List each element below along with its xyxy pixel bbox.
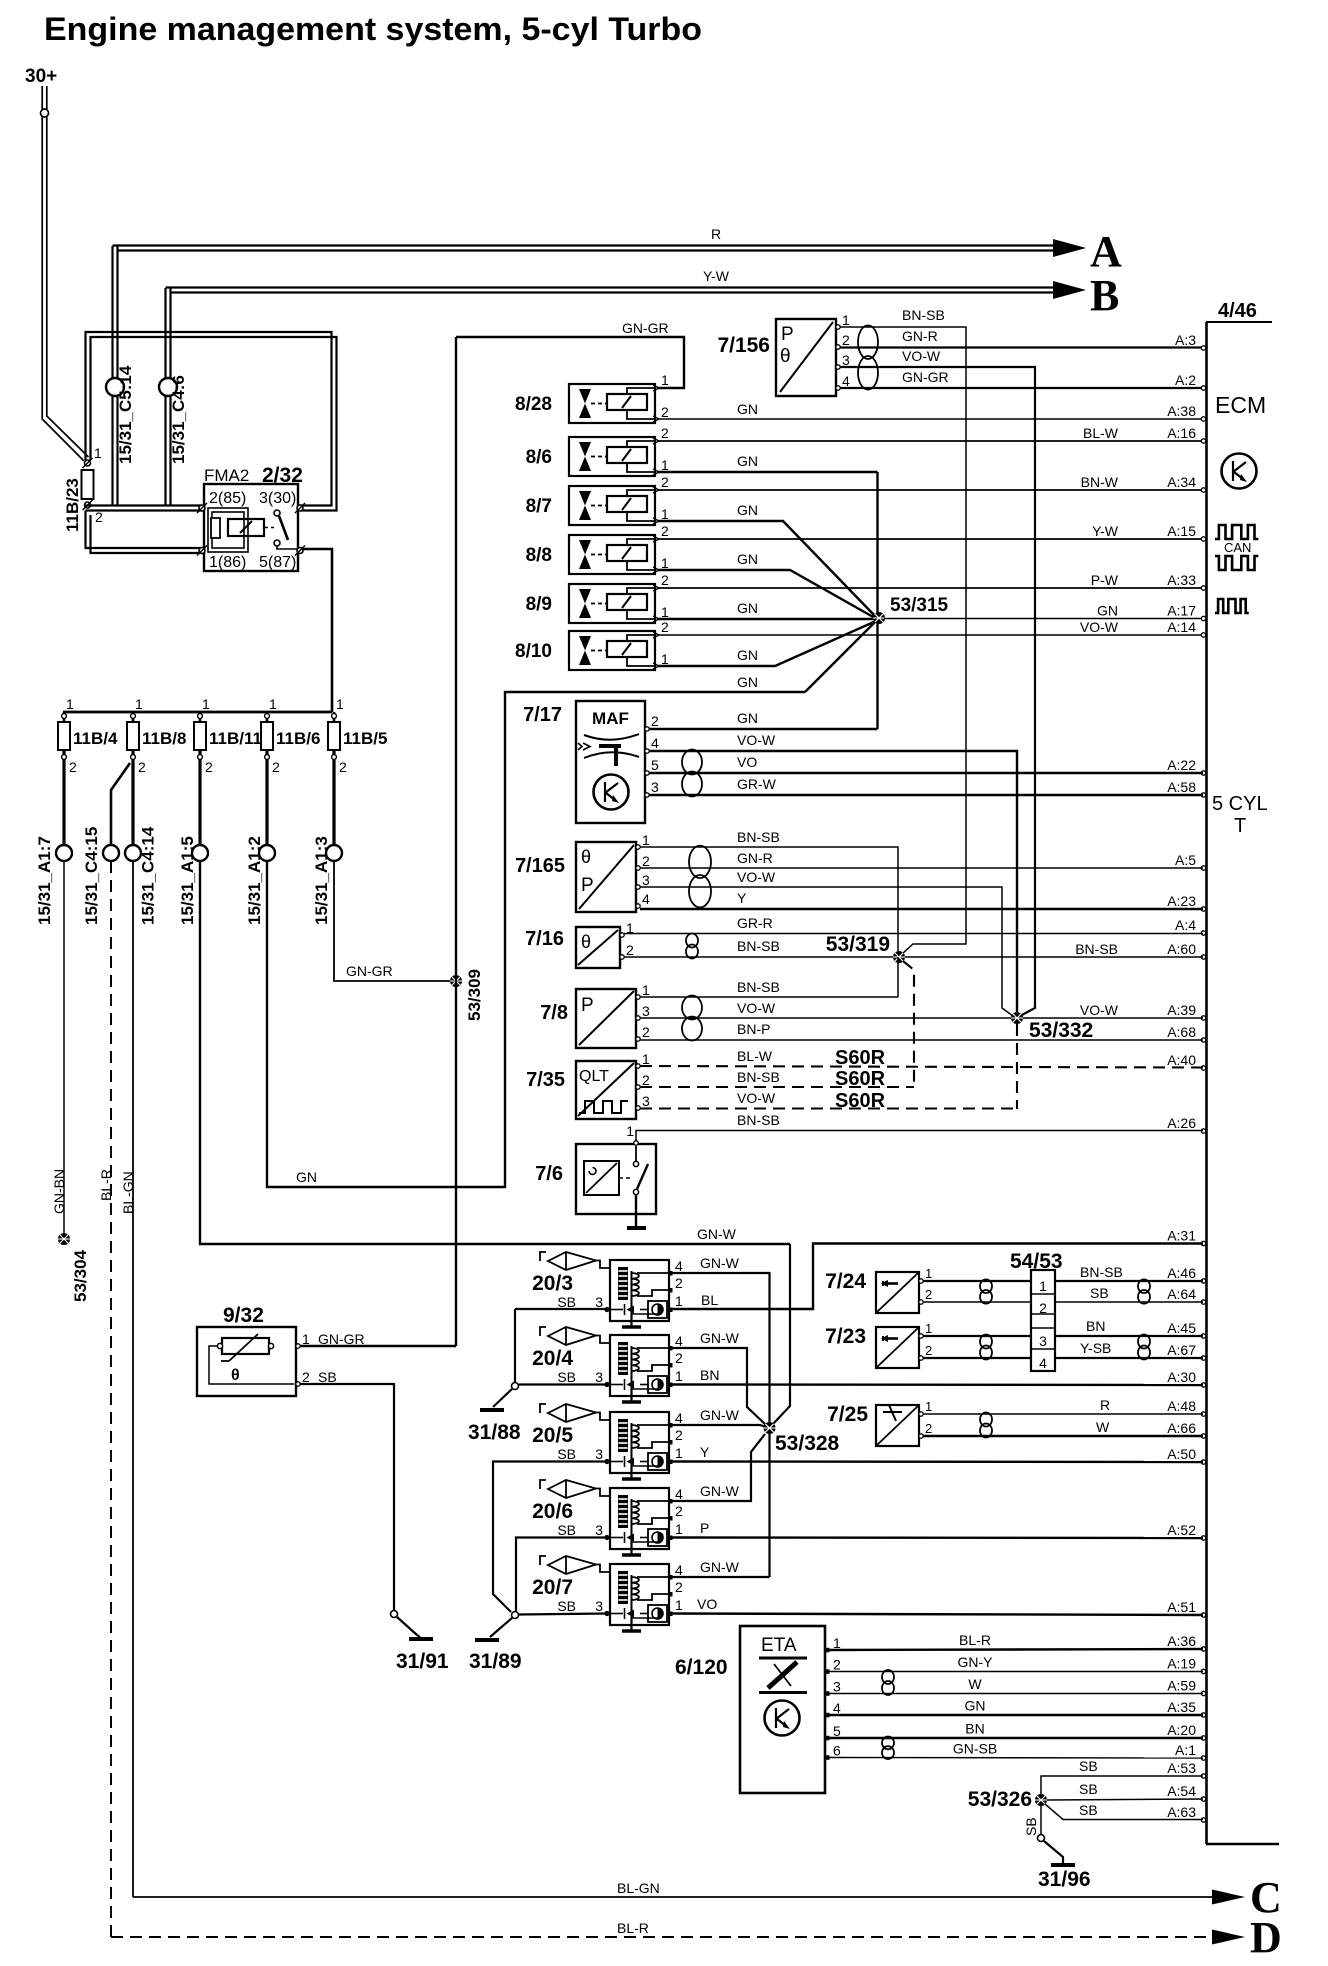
joint 53/309 <box>450 975 462 987</box>
svg-text:31/91: 31/91 <box>396 1650 449 1673</box>
svg-text:BN: BN <box>1086 1318 1105 1334</box>
svg-text:2: 2 <box>675 1427 683 1443</box>
svg-text:VO-W: VO-W <box>902 348 941 364</box>
wire 8/6 pin2 BL-W to ECM A:16 <box>658 440 1203 442</box>
svg-text:MAF: MAF <box>592 709 629 728</box>
wire GN-BN from 15/31_A1:7 to joint 53/304 <box>63 861 65 1233</box>
svg-text:1(86): 1(86) <box>209 554 246 571</box>
svg-text:7/165: 7/165 <box>515 855 565 877</box>
ECM pin A:23 <box>1201 907 1205 911</box>
svg-text:6/120: 6/120 <box>675 1656 728 1679</box>
wire GN-GR 9/32 pin1 to trunk <box>300 1345 456 1347</box>
ignition coil 20/4 <box>610 1335 669 1396</box>
ECM pin A:17 <box>1201 616 1205 620</box>
svg-text:BN-SB: BN-SB <box>1075 941 1118 957</box>
svg-text:4: 4 <box>675 1258 683 1274</box>
svg-text:SB: SB <box>1079 1758 1098 1774</box>
svg-text:A:58: A:58 <box>1167 779 1196 795</box>
svg-text:7/24: 7/24 <box>825 1270 866 1293</box>
spark plug for 20/5 <box>540 1404 546 1413</box>
wire R horizontal to arrow A <box>113 244 1054 246</box>
wire GN-GR from 15/31_A1:3 to joint 53/309 <box>334 861 450 981</box>
svg-text:BL-R: BL-R <box>617 1920 649 1936</box>
wire BL-GN to arrow C <box>133 1896 1212 1898</box>
svg-text:3: 3 <box>842 352 850 368</box>
svg-text:Y-W: Y-W <box>1092 523 1119 539</box>
svg-text:VO-W: VO-W <box>737 1000 776 1016</box>
svg-text:4: 4 <box>675 1410 683 1426</box>
wire GN-W 20/4 pin4 <box>672 1348 766 1425</box>
wire GN-W from 15/31_A1:5 <box>200 861 790 1244</box>
svg-text:8/28: 8/28 <box>515 394 552 415</box>
svg-text:BN-W: BN-W <box>1081 474 1119 490</box>
wire 7/8 pin3 VO-W to 53/332 and ECM A:39 <box>640 1017 1203 1019</box>
injector 8/7 <box>569 486 655 525</box>
svg-text:9/32: 9/32 <box>223 1304 264 1327</box>
svg-text:A:50: A:50 <box>1167 1446 1196 1462</box>
svg-text:2: 2 <box>642 1024 650 1040</box>
svg-text:GN-GR: GN-GR <box>622 320 669 336</box>
svg-text:A:67: A:67 <box>1167 1342 1196 1358</box>
ECM pin A:3 <box>1201 346 1205 350</box>
svg-text:53/304: 53/304 <box>71 1249 90 1302</box>
svg-text:7/6: 7/6 <box>535 1163 563 1185</box>
svg-text:A:33: A:33 <box>1167 572 1196 588</box>
svg-text:GN: GN <box>737 710 758 726</box>
wire MAF pin5 VO to ECM A:22 <box>649 772 1203 774</box>
twisted wires MAF <box>682 750 702 797</box>
ECM pin A:19 <box>1201 1669 1205 1673</box>
wire BN 54/53:3 to ECM A:45 <box>1055 1335 1203 1337</box>
svg-text:BN-SB: BN-SB <box>737 1112 780 1128</box>
fuse 11B/6 <box>266 712 269 722</box>
svg-text:1: 1 <box>675 1597 683 1613</box>
svg-text:GN-W: GN-W <box>700 1559 740 1575</box>
svg-text:GN: GN <box>737 401 758 417</box>
wire BN 20/4 pin1 to ECM A:30 <box>672 1383 1203 1386</box>
svg-text:P-W: P-W <box>1091 572 1119 588</box>
svg-text:2: 2 <box>302 1369 310 1385</box>
svg-text:GN-W: GN-W <box>700 1483 740 1499</box>
svg-text:A:46: A:46 <box>1167 1265 1196 1281</box>
svg-text:11B/5: 11B/5 <box>343 729 387 748</box>
wire 8/28 pin2 GN to ECM A:38 <box>658 418 1203 420</box>
svg-text:5: 5 <box>833 1723 841 1739</box>
wire 7/23 pin2 to 54/53:4 <box>923 1357 1031 1359</box>
svg-text:2: 2 <box>642 1072 650 1088</box>
wire GN 53/315 to ECM A:17 <box>884 618 1203 620</box>
svg-text:1: 1 <box>269 696 277 712</box>
svg-text:SB: SB <box>557 1522 576 1538</box>
svg-text:2: 2 <box>675 1503 683 1519</box>
svg-text:SB: SB <box>1090 1285 1109 1301</box>
svg-text:P: P <box>700 1520 709 1536</box>
svg-text:VO: VO <box>697 1596 717 1612</box>
svg-text:A: A <box>1090 227 1122 276</box>
svg-text:GN-R: GN-R <box>737 850 773 866</box>
wire 7/8 pin1 BN-SB to 53/319 <box>640 996 898 998</box>
svg-text:1: 1 <box>925 1321 932 1336</box>
svg-text:S60R: S60R <box>835 1047 886 1069</box>
svg-text:1: 1 <box>661 506 669 522</box>
svg-text:1: 1 <box>135 696 143 712</box>
relay coil <box>208 508 248 552</box>
wire 7/6 to terminator <box>635 1195 637 1227</box>
svg-text:15/31_A1:7: 15/31_A1:7 <box>35 836 54 925</box>
svg-text:A:3: A:3 <box>1175 332 1196 348</box>
svg-text:1: 1 <box>661 457 669 473</box>
wire 8/9 pin1 GN <box>658 618 874 620</box>
fuse 11B/23 <box>83 458 93 468</box>
ECM pin A:39 <box>1201 1016 1205 1020</box>
svg-text:2: 2 <box>925 1343 932 1358</box>
svg-text:BN-SB: BN-SB <box>902 307 945 323</box>
svg-text:Y: Y <box>737 890 747 906</box>
relay armature <box>228 519 264 536</box>
svg-text:GN-R: GN-R <box>902 328 938 344</box>
svg-text:A:45: A:45 <box>1167 1320 1196 1336</box>
svg-text:P: P <box>781 324 794 345</box>
wire GN-W 20/6 pin4 <box>672 1434 765 1501</box>
svg-text:7/17: 7/17 <box>523 704 562 726</box>
svg-text:1: 1 <box>925 1399 932 1414</box>
svg-text:1: 1 <box>925 1266 932 1281</box>
connector 15/31_A1:3 <box>326 845 342 861</box>
ground 31/89 <box>490 1618 512 1637</box>
svg-text:BN-SB: BN-SB <box>737 1069 780 1085</box>
wire 7/156 pin1 BN-SB to 53/319 <box>840 327 966 955</box>
ignition coil 20/5 <box>610 1412 669 1473</box>
svg-text:A:34: A:34 <box>1167 474 1196 490</box>
svg-text:7/23: 7/23 <box>825 1325 866 1348</box>
svg-text:BL: BL <box>701 1292 718 1308</box>
svg-text:B: B <box>1090 271 1119 320</box>
wire 7/16 pin1 GR-R to ECM A:4 <box>624 933 1203 935</box>
svg-text:BN: BN <box>965 1721 984 1737</box>
wire SB 20/5 pin3 <box>493 1462 607 1613</box>
svg-text:A:59: A:59 <box>1167 1678 1196 1694</box>
wire R (to A) vertical from fuse pin2 node <box>111 246 113 506</box>
svg-text:31/96: 31/96 <box>1038 1868 1091 1891</box>
wire 7/8 pin2 BN-P to ECM A:68 <box>640 1039 1203 1041</box>
spark plug for 20/4 <box>540 1327 546 1336</box>
svg-text:BL-W: BL-W <box>737 1048 773 1064</box>
svg-text:15/31_A1:2: 15/31_A1:2 <box>245 836 264 925</box>
ECM pin A:20 <box>1201 1736 1205 1740</box>
svg-text:SB: SB <box>557 1446 576 1462</box>
svg-text:2(85): 2(85) <box>209 490 246 507</box>
ground junction for 31/88 <box>512 1383 519 1390</box>
wire 30+ feed to relay 3(30) (double-line loop) <box>86 332 332 506</box>
svg-text:30+: 30+ <box>25 66 57 87</box>
svg-text:2: 2 <box>339 759 347 775</box>
svg-text:A:52: A:52 <box>1167 1522 1196 1538</box>
svg-text:3: 3 <box>595 1598 603 1614</box>
svg-text:W: W <box>1096 1419 1110 1435</box>
ECM pin A:1 <box>1201 1756 1205 1760</box>
twisted pair 7/156 <box>858 325 878 389</box>
svg-text:Y-SB: Y-SB <box>1080 1340 1111 1356</box>
connector 15/31_C5:14 <box>106 378 124 396</box>
svg-text:GN-GR: GN-GR <box>346 963 393 979</box>
svg-text:GN-W: GN-W <box>700 1407 740 1423</box>
svg-text:BN-SB: BN-SB <box>737 938 780 954</box>
svg-text:GN-W: GN-W <box>700 1255 740 1271</box>
svg-text:GN-W: GN-W <box>697 1226 737 1242</box>
joint 53/304 <box>58 1233 70 1245</box>
svg-text:BN-SB: BN-SB <box>737 979 780 995</box>
svg-text:A:26: A:26 <box>1167 1115 1196 1131</box>
wire BL-GN from 15/31_C4:14 to arrow C <box>132 861 134 1897</box>
svg-text:GR-W: GR-W <box>737 776 777 792</box>
svg-text:4: 4 <box>675 1486 683 1502</box>
wire 8/7 pin1 GN <box>658 521 875 616</box>
svg-text:1: 1 <box>675 1521 683 1537</box>
svg-text:3: 3 <box>642 1003 650 1019</box>
svg-text:5: 5 <box>651 757 659 773</box>
svg-text:1: 1 <box>642 832 650 848</box>
svg-text:R: R <box>1100 1397 1110 1413</box>
wire 7/23 pin1 to 54/53:3 <box>923 1335 1031 1337</box>
wire GN-Y ETA:2 to ECM A:19 <box>829 1671 1203 1673</box>
svg-text:2: 2 <box>661 425 669 441</box>
svg-text:GN: GN <box>737 453 758 469</box>
fuse 11B/11 <box>199 712 202 722</box>
injector 8/28 <box>569 384 655 423</box>
svg-text:15/31_C4:15: 15/31_C4:15 <box>82 827 101 925</box>
svg-text:GN: GN <box>296 1169 317 1185</box>
svg-text:2: 2 <box>272 759 280 775</box>
svg-text:P: P <box>581 995 594 1016</box>
wire 7/156 pin2 GN-R to ECM A:3 <box>840 346 1203 348</box>
svg-text:SB: SB <box>557 1598 576 1614</box>
svg-text:2: 2 <box>661 619 669 635</box>
svg-text:1: 1 <box>675 1368 683 1384</box>
wire SB 53/326 to ECM A:53 <box>1041 1776 1203 1794</box>
svg-text:3(30): 3(30) <box>259 490 296 507</box>
svg-text:5(87): 5(87) <box>259 554 296 571</box>
svg-text:20/5: 20/5 <box>532 1424 573 1447</box>
wire 7/35 pin3 VO-W (dashed, S60R) <box>640 1107 1017 1109</box>
wire fuse pin2 down to relay 1(86) <box>86 511 205 549</box>
wire P 20/6 pin1 to ECM A:52 <box>672 1536 1203 1539</box>
arrow A <box>1053 239 1086 257</box>
wire SB 20/4 pin3 <box>519 1383 607 1385</box>
wire MAF pin4 VO-W to 53/332 <box>649 751 1017 1012</box>
ECM pin A:33 <box>1201 586 1205 590</box>
svg-text:8/7: 8/7 <box>526 496 552 517</box>
svg-text:11B/6: 11B/6 <box>276 729 320 748</box>
wire MAF pin3 GR-W to ECM A:58 <box>649 794 1203 796</box>
ECM CAN symbol <box>1215 525 1258 539</box>
svg-text:A:54: A:54 <box>1167 1783 1196 1799</box>
svg-text:R: R <box>711 226 721 242</box>
wire 7/24 pin2 to 54/53:2 <box>923 1301 1031 1303</box>
svg-text:3: 3 <box>595 1446 603 1462</box>
svg-text:3: 3 <box>651 779 659 795</box>
arrow C <box>1212 1890 1245 1905</box>
ECM pin A:66 <box>1201 1434 1205 1438</box>
svg-text:5 CYL: 5 CYL <box>1212 793 1268 815</box>
svg-text:VO: VO <box>737 754 757 770</box>
svg-text:A:51: A:51 <box>1167 1599 1196 1615</box>
wire GN-GR top run to injector 8/28 pin1 <box>456 337 684 388</box>
svg-text:11B/11: 11B/11 <box>209 729 262 748</box>
ECM pin A:54 <box>1201 1797 1205 1801</box>
svg-text:7/25: 7/25 <box>827 1403 868 1426</box>
svg-text:QLT: QLT <box>579 1068 609 1085</box>
svg-text:3: 3 <box>595 1294 603 1310</box>
svg-text:31/89: 31/89 <box>469 1650 522 1673</box>
svg-text:BN-P: BN-P <box>737 1021 770 1037</box>
svg-text:θ: θ <box>780 346 791 367</box>
wire W ETA:3 to ECM A:59 <box>829 1693 1203 1695</box>
svg-text:A:23: A:23 <box>1167 893 1196 909</box>
wire GN-W supply into 53/328 <box>773 1244 790 1424</box>
ECM pin A:59 <box>1201 1691 1205 1695</box>
wire 7/165 pin3 VO-W to 53/332 <box>640 887 1013 1016</box>
ECM pin A:63 <box>1201 1818 1205 1822</box>
svg-text:GN: GN <box>737 502 758 518</box>
svg-text:1: 1 <box>842 312 850 328</box>
svg-text:S60R: S60R <box>835 1090 886 1112</box>
fuse bus <box>63 711 332 714</box>
wire VO-W (dashed) 53/332 down to 7/35 pin3 <box>1016 1024 1018 1109</box>
svg-text:A:53: A:53 <box>1167 1760 1196 1776</box>
connector 15/31_A1:5 <box>192 845 208 861</box>
svg-text:GN: GN <box>737 647 758 663</box>
svg-text:4: 4 <box>842 373 850 389</box>
svg-text:A:19: A:19 <box>1167 1656 1196 1672</box>
connector 15/31_C4:15 <box>103 845 119 861</box>
svg-text:7/8: 7/8 <box>540 1002 568 1024</box>
svg-text:53/326: 53/326 <box>968 1788 1032 1811</box>
svg-text:20/4: 20/4 <box>532 1347 573 1370</box>
connector 15/31_C4:6 <box>159 378 177 396</box>
spark plug for 20/7 <box>540 1556 546 1565</box>
svg-text:2: 2 <box>661 572 669 588</box>
svg-text:2: 2 <box>661 523 669 539</box>
svg-text:8/10: 8/10 <box>515 641 552 662</box>
svg-text:A:36: A:36 <box>1167 1633 1196 1649</box>
ECM pin A:40 <box>1201 1066 1205 1070</box>
svg-text:3: 3 <box>1039 1333 1047 1349</box>
svg-text:T: T <box>1234 815 1246 837</box>
svg-text:2: 2 <box>69 759 77 775</box>
svg-text:SB: SB <box>557 1294 576 1310</box>
wire 8/8 pin1 GN <box>658 570 875 618</box>
svg-text:GN: GN <box>1097 603 1118 619</box>
joint 53/326 <box>1035 1794 1047 1806</box>
wire BN-SB (dashed) 53/319 to 7/35 pin2 <box>903 961 914 1087</box>
svg-text:20/6: 20/6 <box>532 1500 573 1523</box>
svg-text:SB: SB <box>557 1369 576 1385</box>
wire 7/24 pin1 to 54/53:1 <box>923 1280 1031 1282</box>
ground 31/88 <box>493 1389 512 1407</box>
wire BN ETA:5 to ECM A:20 <box>829 1737 1203 1739</box>
svg-text:2: 2 <box>833 1657 841 1673</box>
svg-text:BL-GN: BL-GN <box>120 1171 136 1214</box>
ECM K diagnostic symbol <box>1222 454 1257 489</box>
svg-text:A:31: A:31 <box>1167 1228 1196 1244</box>
svg-text:A:68: A:68 <box>1167 1024 1196 1040</box>
wire BL-R (dashed) to arrow D <box>111 1936 1212 1938</box>
ground junction for 31/89 <box>512 1612 519 1619</box>
wire SB 20/6 pin3 <box>516 1538 607 1612</box>
wire branch 11B/8 pin2 to connector 15/31_C4:15 <box>111 763 130 846</box>
svg-text:2: 2 <box>675 1579 683 1595</box>
wire MAF pin2 GN to 53/315 <box>649 728 878 730</box>
fuse 11B/4 <box>63 712 66 722</box>
svg-text:BN-SB: BN-SB <box>737 829 780 845</box>
connector 15/31_A1:7 <box>56 845 72 861</box>
svg-text:A:22: A:22 <box>1167 757 1196 773</box>
wire VO 20/7 pin1 to ECM A:51 <box>672 1614 1203 1616</box>
svg-text:2: 2 <box>651 713 659 729</box>
wire BL-R (dashed) from 15/31_C4:15 to arrow D <box>110 861 112 1937</box>
svg-text:2: 2 <box>626 942 634 958</box>
svg-text:GN: GN <box>737 600 758 616</box>
wire 7/35 pin2 BN-SB (dashed, S60R) <box>640 1086 914 1088</box>
svg-text:A:35: A:35 <box>1167 1699 1196 1715</box>
relay pin connectors <box>197 503 207 513</box>
svg-text:3: 3 <box>595 1522 603 1538</box>
svg-text:3: 3 <box>833 1679 841 1695</box>
wire Y-SB 54/53:4 to ECM A:67 <box>1055 1357 1203 1359</box>
svg-text:8/6: 8/6 <box>526 447 552 468</box>
ECM pin A:46 <box>1201 1279 1205 1283</box>
svg-text:1: 1 <box>661 555 669 571</box>
svg-text:1: 1 <box>833 1635 841 1651</box>
svg-text:SB: SB <box>1079 1802 1098 1818</box>
wire 8/9 pin2 P-W to ECM A:33 <box>658 587 1203 589</box>
wire 7/156 pin4 GN-GR to ECM A:2 <box>840 387 1203 389</box>
wire SB 20/3 pin3 <box>515 1308 607 1310</box>
svg-text:4: 4 <box>833 1700 841 1716</box>
ECM pin A:5 <box>1201 866 1205 870</box>
svg-text:A:5: A:5 <box>1175 852 1196 868</box>
svg-text:A:16: A:16 <box>1167 425 1196 441</box>
svg-text:11B/8: 11B/8 <box>142 729 186 748</box>
wire Y-W (to B) vertical from relay 2(85) node <box>164 288 166 506</box>
ECM pin A:31 <box>1201 1241 1205 1245</box>
svg-text:3: 3 <box>642 1093 650 1109</box>
svg-text:A:38: A:38 <box>1167 403 1196 419</box>
svg-text:GN-GR: GN-GR <box>318 1331 365 1347</box>
svg-text:15/31_C4:14: 15/31_C4:14 <box>139 826 158 925</box>
svg-text:1: 1 <box>202 696 210 712</box>
wire 7/35 pin1 BL-W (dashed, S60R) to ECM A:40 <box>640 1066 1203 1068</box>
ECM pin A:22 <box>1201 771 1205 775</box>
wire relay 5(87) down to fuse bus <box>302 549 332 712</box>
svg-text:A:4: A:4 <box>1175 917 1196 933</box>
svg-text:GN-W: GN-W <box>700 1330 740 1346</box>
wire BN-SB 53/319 down to 7/8 pin1 <box>897 957 899 997</box>
wire 7/165 pin2 GN-R to ECM A:5 <box>640 867 1203 869</box>
arrow D <box>1212 1930 1245 1945</box>
ECM pin A:67 <box>1201 1356 1205 1360</box>
svg-text:2: 2 <box>675 1275 683 1291</box>
wire SB 54/53:2 to ECM A:64 <box>1055 1301 1203 1303</box>
connector 15/31_C4:14 <box>125 845 141 861</box>
svg-text:SB: SB <box>318 1369 337 1385</box>
svg-text:6: 6 <box>833 1743 841 1759</box>
svg-text:15/31_C5:14: 15/31_C5:14 <box>116 365 135 464</box>
wire BN-SB 7/6 pin1 to ECM A:26 <box>636 1131 1203 1142</box>
svg-text:2: 2 <box>675 1350 683 1366</box>
ECM pin A:52 <box>1201 1536 1205 1540</box>
ECM pin A:45 <box>1201 1334 1205 1338</box>
